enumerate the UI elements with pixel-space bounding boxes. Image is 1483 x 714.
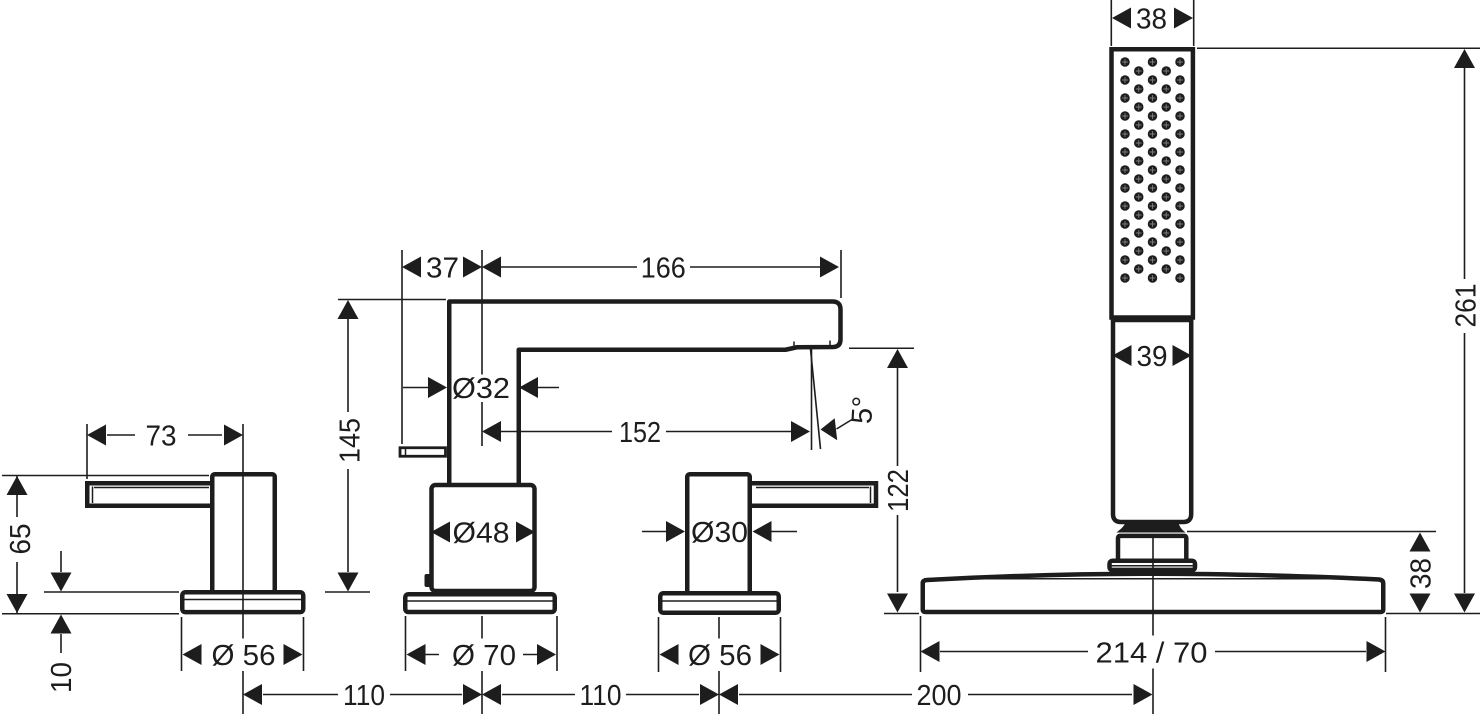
dimension 261: [1197, 48, 1483, 612]
dimension 37 and 166: [402, 250, 841, 444]
svg-text:10: 10: [46, 662, 78, 693]
dimension 122: [849, 348, 915, 612]
svg-text:Ø 70: Ø 70: [452, 640, 516, 672]
svg-text:65: 65: [5, 524, 37, 555]
left handle lever: [87, 483, 239, 506]
holder flare ring: [1110, 561, 1196, 571]
svg-text:166: 166: [641, 253, 686, 285]
holder neck: [1117, 521, 1186, 533]
chained dimension 200: [719, 680, 1153, 712]
svg-text:Ø 56: Ø 56: [688, 640, 752, 672]
hand shower handle: [1113, 320, 1191, 522]
right handle escutcheon: [660, 593, 779, 613]
svg-text:38: 38: [1406, 558, 1438, 589]
base plate contour line: [924, 578, 1382, 580]
svg-text:110: 110: [580, 680, 622, 712]
holder clamp: [1118, 536, 1186, 563]
dimension 39: [1113, 341, 1192, 373]
5 degree reference line: [811, 349, 813, 450]
spray face dots: [1120, 57, 1185, 283]
escutcheon bottom reference line: [2, 613, 179, 615]
dimension O48: [431, 518, 535, 550]
dimension 73: [87, 421, 243, 480]
spout body: [449, 302, 840, 487]
base plate: [923, 574, 1384, 612]
svg-text:Ø32: Ø32: [452, 373, 510, 405]
svg-text:73: 73: [146, 421, 177, 453]
chained dimension 110 right: [482, 680, 719, 712]
dimension 65: [2, 476, 209, 614]
shower centerline: [1152, 534, 1154, 714]
dimension O70: [406, 616, 558, 672]
5 degree slanted line: [811, 349, 821, 449]
right handle lever: [724, 483, 876, 506]
svg-text:200: 200: [917, 680, 962, 712]
svg-text:Ø 56: Ø 56: [212, 640, 276, 672]
left handle body: [212, 474, 275, 594]
svg-text:122: 122: [883, 469, 915, 512]
dimension O56 right: [659, 617, 781, 672]
dimension 5 degrees: [821, 395, 880, 440]
dimension 38 top: [1111, 0, 1193, 46]
svg-text:37: 37: [426, 253, 459, 285]
svg-text:Ø30: Ø30: [691, 517, 748, 549]
svg-text:152: 152: [619, 417, 661, 449]
svg-text:5°: 5°: [846, 395, 879, 424]
right handle body: [687, 474, 750, 594]
spout centerline: [481, 250, 483, 714]
hand shower head: [1112, 49, 1193, 317]
spout base mark: [425, 574, 432, 587]
svg-text:110: 110: [343, 680, 385, 712]
svg-text:214 / 70: 214 / 70: [1096, 638, 1208, 670]
deck line left: [44, 591, 370, 593]
svg-text:145: 145: [334, 418, 366, 463]
left handle escutcheon: [182, 592, 304, 612]
chained dimension 110 left: [243, 680, 482, 712]
right handle centerline: [718, 617, 720, 714]
dimension 214 / 70: [921, 616, 1386, 672]
spout escutcheon: [405, 594, 555, 612]
dimension O32: [403, 373, 559, 405]
dimension O56 left: [182, 617, 304, 672]
spout base block: [432, 485, 535, 591]
spout side outlet: [400, 448, 446, 457]
dimension 10: [46, 551, 78, 693]
aerator ticks: [794, 341, 830, 347]
svg-text:261: 261: [1451, 284, 1483, 328]
svg-text:Ø48: Ø48: [453, 518, 510, 550]
deck line right: [884, 613, 1480, 615]
dimension 152: [482, 417, 810, 449]
dimension 145: [334, 300, 446, 592]
svg-text:38: 38: [1136, 4, 1167, 36]
svg-text:39: 39: [1137, 341, 1168, 373]
dimension O30: [642, 517, 797, 549]
left handle centerline: [242, 424, 244, 714]
dimension 38 right: [1187, 532, 1438, 613]
